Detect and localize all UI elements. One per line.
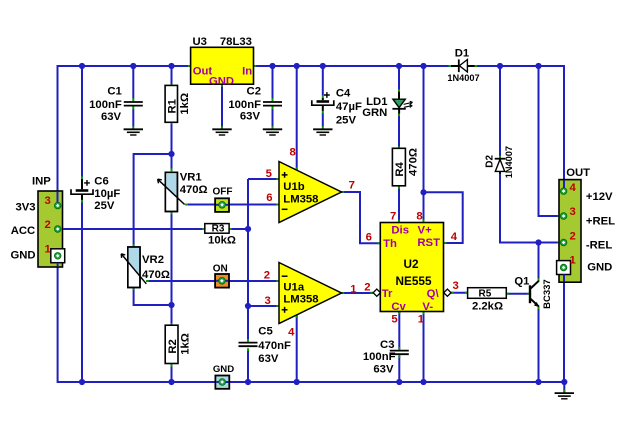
svg-text:Q1: Q1 bbox=[514, 275, 529, 287]
svg-text:1: 1 bbox=[418, 314, 424, 326]
svg-text:6: 6 bbox=[266, 192, 272, 204]
svg-text:25V: 25V bbox=[336, 115, 357, 127]
svg-text:OFF: OFF bbox=[213, 187, 233, 198]
svg-text:GRN: GRN bbox=[362, 107, 387, 119]
svg-text:Th: Th bbox=[383, 238, 397, 250]
svg-text:63V: 63V bbox=[101, 111, 122, 123]
svg-text:GND: GND bbox=[209, 76, 234, 88]
svg-text:470nF: 470nF bbox=[258, 340, 291, 352]
svg-text:4: 4 bbox=[451, 231, 458, 243]
svg-text:6: 6 bbox=[366, 232, 372, 244]
svg-text:GND: GND bbox=[213, 364, 234, 375]
svg-text:V+: V+ bbox=[418, 225, 433, 237]
svg-text:4: 4 bbox=[570, 182, 577, 194]
svg-text:INP: INP bbox=[32, 175, 51, 187]
svg-text:5: 5 bbox=[391, 314, 397, 326]
svg-text:1: 1 bbox=[570, 254, 576, 266]
svg-text:OUT: OUT bbox=[566, 167, 590, 179]
svg-text:U1b: U1b bbox=[283, 181, 304, 193]
svg-text:LM358: LM358 bbox=[283, 294, 318, 306]
svg-text:7: 7 bbox=[390, 211, 396, 223]
svg-text:U2: U2 bbox=[403, 257, 419, 271]
svg-text:Dis: Dis bbox=[391, 225, 409, 237]
svg-text:Q\: Q\ bbox=[427, 288, 440, 300]
svg-text:10µF: 10µF bbox=[94, 188, 120, 200]
svg-text:R1: R1 bbox=[167, 99, 179, 113]
svg-text:4: 4 bbox=[288, 326, 295, 338]
svg-text:V-: V- bbox=[422, 301, 433, 313]
svg-text:5: 5 bbox=[266, 168, 272, 180]
svg-text:2: 2 bbox=[45, 219, 51, 231]
svg-text:C6: C6 bbox=[94, 176, 108, 188]
svg-text:2: 2 bbox=[264, 269, 270, 281]
svg-text:25V: 25V bbox=[94, 200, 115, 212]
svg-text:D1: D1 bbox=[455, 48, 469, 60]
svg-text:ON: ON bbox=[213, 264, 228, 275]
svg-text:100nF: 100nF bbox=[228, 99, 261, 111]
svg-text:NE555: NE555 bbox=[395, 274, 432, 288]
svg-text:3: 3 bbox=[570, 206, 576, 218]
svg-text:C2: C2 bbox=[247, 86, 261, 98]
svg-text:3: 3 bbox=[453, 280, 459, 292]
svg-text:VR1: VR1 bbox=[180, 171, 202, 183]
svg-text:3V3: 3V3 bbox=[15, 201, 35, 213]
svg-text:1kΩ: 1kΩ bbox=[179, 93, 191, 115]
svg-text:+REL: +REL bbox=[586, 216, 615, 228]
svg-text:ACC: ACC bbox=[11, 225, 35, 237]
svg-text:1kΩ: 1kΩ bbox=[179, 333, 191, 355]
svg-text:1N4007: 1N4007 bbox=[504, 146, 514, 178]
svg-text:63V: 63V bbox=[240, 111, 261, 123]
svg-text:2: 2 bbox=[570, 230, 576, 242]
svg-text:R2: R2 bbox=[167, 339, 179, 353]
svg-text:D2: D2 bbox=[485, 154, 496, 167]
svg-text:10kΩ: 10kΩ bbox=[208, 234, 236, 246]
svg-text:1: 1 bbox=[45, 244, 51, 256]
svg-text:GND: GND bbox=[10, 250, 35, 262]
svg-text:470Ω: 470Ω bbox=[408, 148, 420, 176]
svg-text:8: 8 bbox=[290, 146, 296, 158]
svg-text:470Ω: 470Ω bbox=[180, 184, 208, 196]
svg-text:In: In bbox=[242, 65, 252, 77]
svg-text:47µF: 47µF bbox=[336, 101, 362, 113]
svg-text:R3: R3 bbox=[212, 224, 225, 235]
svg-text:+12V: +12V bbox=[586, 191, 613, 203]
svg-text:7: 7 bbox=[349, 180, 355, 192]
svg-text:2.2kΩ: 2.2kΩ bbox=[472, 301, 503, 313]
svg-text:100nF: 100nF bbox=[89, 99, 122, 111]
svg-text:R5: R5 bbox=[479, 289, 492, 300]
svg-text:63V: 63V bbox=[258, 353, 279, 365]
svg-text:C4: C4 bbox=[336, 88, 351, 100]
svg-text:LM358: LM358 bbox=[283, 194, 318, 206]
svg-text:C5: C5 bbox=[258, 325, 272, 337]
svg-text:1N4007: 1N4007 bbox=[447, 73, 479, 83]
svg-text:-REL: -REL bbox=[586, 240, 612, 252]
svg-text:Cv: Cv bbox=[391, 301, 406, 313]
svg-text:Tr: Tr bbox=[382, 288, 393, 300]
svg-text:C3: C3 bbox=[380, 339, 394, 351]
svg-text:RST: RST bbox=[417, 237, 440, 249]
svg-text:78L33: 78L33 bbox=[220, 36, 252, 48]
svg-text:VR2: VR2 bbox=[142, 254, 164, 266]
svg-text:BC337: BC337 bbox=[542, 279, 553, 309]
svg-text:C1: C1 bbox=[107, 86, 121, 98]
svg-text:3: 3 bbox=[45, 195, 51, 207]
svg-text:470Ω: 470Ω bbox=[142, 269, 170, 281]
svg-text:R4: R4 bbox=[394, 161, 406, 176]
svg-text:100nF: 100nF bbox=[363, 351, 396, 363]
svg-text:U3: U3 bbox=[193, 36, 207, 48]
svg-text:8: 8 bbox=[416, 211, 422, 223]
svg-text:3: 3 bbox=[265, 295, 271, 307]
svg-text:GND: GND bbox=[587, 262, 612, 274]
svg-text:U1a: U1a bbox=[283, 282, 304, 294]
svg-text:1: 1 bbox=[350, 284, 356, 296]
svg-text:63V: 63V bbox=[373, 364, 394, 376]
svg-text:2: 2 bbox=[364, 282, 370, 294]
